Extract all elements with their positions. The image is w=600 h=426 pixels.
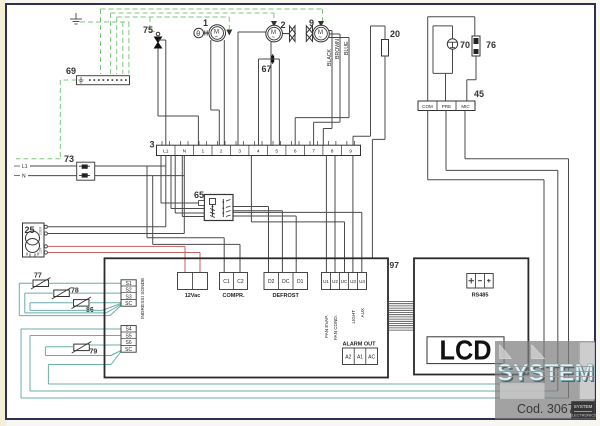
watermark SYSTEM logo xyxy=(495,341,597,419)
svg-text:12Vac: 12Vac xyxy=(185,293,201,299)
wire probe 86 teal xyxy=(30,303,121,311)
earth arrow at motor 2 xyxy=(271,21,277,27)
svg-text:N: N xyxy=(183,149,187,155)
wire sensor 67 loop xyxy=(259,59,280,145)
terminal U1 U2 UC U3 U4 xyxy=(322,273,367,341)
svg-text:76: 76 xyxy=(486,40,496,50)
motor 9 with fan xyxy=(306,18,329,42)
svg-text:20: 20 xyxy=(390,29,400,39)
sensor 67 xyxy=(262,54,275,74)
svg-text:U1: U1 xyxy=(323,279,329,284)
svg-text:3: 3 xyxy=(238,149,241,155)
wire L1 in xyxy=(30,156,166,227)
wire MIC long run xyxy=(465,111,569,399)
svg-text:SYSTEM: SYSTEM xyxy=(574,404,593,409)
svg-text:97: 97 xyxy=(390,260,400,270)
svg-text:65: 65 xyxy=(194,190,204,200)
terminal ALARM OUT A2 A1 AC xyxy=(343,342,378,365)
svg-text:COM: COM xyxy=(422,104,433,109)
terminal COMPR C1 C2 xyxy=(220,273,248,300)
earth arrow at motor 9 xyxy=(318,21,324,27)
L1 N incoming labels xyxy=(22,164,28,180)
relay 65 xyxy=(194,190,233,221)
LCD label xyxy=(427,335,504,366)
svg-text:LCD: LCD xyxy=(440,335,492,366)
svg-text:SC: SC xyxy=(125,301,132,307)
svg-text:7: 7 xyxy=(312,149,315,155)
svg-text:S4: S4 xyxy=(126,327,132,333)
svg-text:4: 4 xyxy=(257,149,260,155)
svg-text:AC: AC xyxy=(368,355,375,361)
svg-text:77: 77 xyxy=(34,273,42,280)
svg-text:BROWN: BROWN xyxy=(335,39,341,59)
svg-text:RS485: RS485 xyxy=(472,293,489,299)
svg-text:69: 69 xyxy=(66,66,76,76)
wire motor 9 black xyxy=(323,31,332,146)
svg-text:S1: S1 xyxy=(126,281,132,287)
svg-text:D1: D1 xyxy=(297,279,304,285)
svg-text:C1: C1 xyxy=(223,279,230,285)
svg-text:~: ~ xyxy=(215,35,219,41)
wire L1 drop to compressor C1 xyxy=(147,166,224,273)
svg-text:~: ~ xyxy=(319,35,323,41)
svg-text:BLACK: BLACK xyxy=(327,48,333,66)
svg-text:SYSTEM: SYSTEM xyxy=(497,360,594,387)
svg-text:ALARM OUT: ALARM OUT xyxy=(343,342,377,348)
svg-text:75: 75 xyxy=(143,25,153,35)
svg-text:~: ~ xyxy=(272,35,276,41)
wire motor 9 blue xyxy=(295,38,349,146)
svg-text:2: 2 xyxy=(281,20,286,30)
wire SC to COM teal loop xyxy=(48,352,544,385)
svg-text:A2: A2 xyxy=(345,355,351,361)
wire motor 9 brown xyxy=(314,34,340,145)
svg-text:θ: θ xyxy=(196,31,200,38)
transformer 25 xyxy=(23,223,48,257)
svg-text:DEFROST: DEFROST xyxy=(273,293,300,299)
svg-text:L1: L1 xyxy=(163,149,169,155)
svg-text:U3: U3 xyxy=(350,279,356,284)
svg-text:1: 1 xyxy=(203,18,208,28)
earth arrow at motor 1 xyxy=(226,30,232,36)
svg-text:5: 5 xyxy=(275,149,278,155)
lamp 70 xyxy=(447,39,470,50)
ground earth symbol top-left xyxy=(70,13,82,24)
svg-text:A1: A1 xyxy=(357,355,363,361)
svg-text:FAN COND.: FAN COND. xyxy=(333,315,338,340)
probe 86 xyxy=(72,297,94,314)
svg-text:1: 1 xyxy=(201,149,204,155)
wire strip to U terminals xyxy=(251,156,353,273)
motor 1 with capacitor xyxy=(194,18,226,41)
ribbon cable xyxy=(388,302,414,331)
probe input terminals S1-SC xyxy=(121,278,146,353)
svg-text:25: 25 xyxy=(25,225,35,235)
svg-text:45: 45 xyxy=(474,89,484,99)
svg-text:UC: UC xyxy=(341,279,348,284)
terminal strip 3 xyxy=(150,140,361,156)
wire motor 2 to strip xyxy=(238,32,271,145)
svg-text:S2: S2 xyxy=(126,288,132,294)
wire COM long run xyxy=(428,111,544,385)
svg-text:COMPR.: COMPR. xyxy=(223,293,245,299)
controller board 97 xyxy=(105,258,400,377)
probe 78 xyxy=(52,288,79,300)
probe 77 xyxy=(31,273,51,290)
RS485 terminal xyxy=(467,274,493,299)
wire fuse 75 to strip xyxy=(158,40,198,145)
svg-text:C2: C2 xyxy=(237,279,244,285)
switch 76 xyxy=(472,36,496,56)
svg-text:D2: D2 xyxy=(268,279,275,285)
wire probe 77 teal xyxy=(19,283,121,315)
resistor 20 xyxy=(382,29,401,56)
wire strip to relay 65 feeds xyxy=(161,156,204,217)
svg-text:2: 2 xyxy=(220,149,223,155)
fuses 73 xyxy=(64,154,95,180)
svg-text:S3: S3 xyxy=(126,294,132,300)
svg-text:12V: 12V xyxy=(39,247,43,254)
earth bus bar 69 xyxy=(66,66,130,85)
wire relay 65 to defrost terminals xyxy=(233,207,362,273)
svg-text:9: 9 xyxy=(349,149,352,155)
wire motor 1 to strip xyxy=(211,40,225,145)
svg-text:N: N xyxy=(22,174,26,180)
svg-text:L1: L1 xyxy=(22,164,28,170)
svg-text:SC: SC xyxy=(125,347,132,353)
wire 12V red secondary xyxy=(48,246,200,272)
wire PRE long run xyxy=(446,111,558,392)
svg-text:PRE: PRE xyxy=(442,104,451,109)
wire S5 to PRE teal loop xyxy=(30,336,558,392)
svg-text:6: 6 xyxy=(294,149,297,155)
terminal 12Vac xyxy=(178,273,208,300)
terminal block 45 COM PRE MIC xyxy=(418,89,484,111)
wire S4 to MIC teal loop xyxy=(21,329,569,398)
terminal DEFROST D2 DC D1 xyxy=(264,273,308,300)
wire probe 78 teal xyxy=(25,293,121,313)
wire N in xyxy=(28,156,184,234)
wire resistor 20 legs xyxy=(353,26,385,258)
wire transformer primary taps xyxy=(48,227,185,234)
wire lamp-switch circuit of terminal 45 xyxy=(428,17,476,101)
svg-text:INGRESSI SONDE: INGRESSI SONDE xyxy=(140,278,146,319)
fuse 75 xyxy=(143,25,162,48)
svg-text:S5: S5 xyxy=(126,333,132,339)
svg-text:3: 3 xyxy=(150,140,155,150)
svg-text:Cod. 3067: Cod. 3067 xyxy=(517,402,575,416)
svg-text:AUX: AUX xyxy=(360,308,365,317)
svg-text:MIC: MIC xyxy=(461,104,470,109)
svg-text:U4: U4 xyxy=(359,279,365,284)
svg-text:67: 67 xyxy=(262,64,272,74)
svg-text:U2: U2 xyxy=(332,279,338,284)
wire earth dashed net xyxy=(16,9,323,159)
svg-text:230V: 230V xyxy=(39,226,43,235)
svg-text:79: 79 xyxy=(90,349,98,356)
probe 79 xyxy=(72,342,98,356)
wire N drop to compressor C2 xyxy=(153,176,240,273)
svg-text:8: 8 xyxy=(331,149,334,155)
svg-text:FAN EVAP.: FAN EVAP. xyxy=(324,315,329,338)
svg-text:BLUE: BLUE xyxy=(344,41,350,55)
svg-text:LIGHT: LIGHT xyxy=(351,310,356,324)
svg-text:73: 73 xyxy=(64,154,74,164)
LCD display board xyxy=(414,258,528,374)
svg-text:70: 70 xyxy=(460,40,470,50)
wire probe 79 teal xyxy=(45,345,121,356)
svg-text:S6: S6 xyxy=(126,340,132,346)
motor 2 with fan xyxy=(266,20,296,42)
svg-text:DC: DC xyxy=(282,279,290,285)
